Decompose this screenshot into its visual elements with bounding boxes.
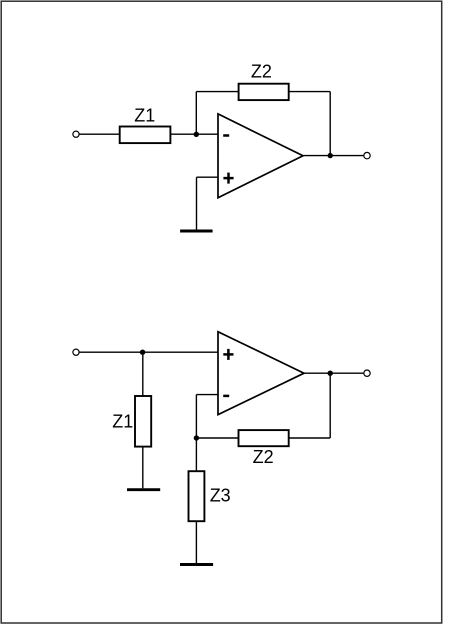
wire non-inverting input to ground <box>196 177 198 229</box>
svg-text:Z1: Z1 <box>134 106 155 126</box>
impedance Z1 (top circuit) <box>120 127 171 144</box>
op-amp U1 <box>218 114 303 198</box>
wire Z1 to ground <box>142 447 144 489</box>
wire input to non-inverting input <box>79 351 218 353</box>
wire input to Z1 <box>79 133 120 135</box>
op-amp U2 <box>218 332 304 415</box>
wire Z3 to ground <box>195 521 197 563</box>
wire output (bottom circuit) <box>304 372 363 374</box>
impedance Z3 <box>189 471 205 521</box>
output terminal (top circuit) <box>364 152 370 158</box>
node: output junction (top circuit) <box>328 153 333 158</box>
impedance Z2 (top circuit) <box>239 84 289 100</box>
svg-text:Z2: Z2 <box>251 62 272 82</box>
ground under Z3 <box>180 563 213 566</box>
wire Z2 to output branch <box>289 437 331 439</box>
ground under Z1 <box>127 488 160 491</box>
wire feedback right segment <box>289 91 331 93</box>
svg-text:Z2: Z2 <box>253 447 274 467</box>
non-inverting input marker (+) U1 <box>223 173 233 184</box>
ground (top circuit) <box>180 230 213 233</box>
wire junction to Z2 <box>196 437 238 439</box>
svg-text:Z1: Z1 <box>112 411 133 431</box>
wire feedback down to output <box>329 92 331 156</box>
node: inverting input junction <box>194 132 199 137</box>
wire junction up to feedback <box>195 92 197 135</box>
output terminal (bottom circuit) <box>364 370 370 376</box>
input terminal (top circuit) <box>73 131 79 137</box>
wire non-inverting input <box>197 176 219 178</box>
node: feedback junction <box>194 435 199 440</box>
inverting input marker (-) U1 <box>223 134 229 137</box>
non-inverting input marker (+) U2 <box>223 349 233 360</box>
node: input junction (bottom circuit) <box>140 350 145 355</box>
node: output junction (bottom circuit) <box>328 371 333 376</box>
wire feedback up to output <box>329 373 331 438</box>
wire output (top circuit) <box>303 155 363 157</box>
wire inverting input <box>196 394 218 396</box>
svg-text:Z3: Z3 <box>210 486 231 506</box>
input terminal (bottom circuit) <box>73 349 79 355</box>
wire feedback left segment <box>196 91 238 93</box>
wire junction down to Z3 <box>195 438 197 471</box>
wire Z1 to inverting input <box>170 133 218 135</box>
impedance Z2 (bottom circuit) <box>239 430 289 446</box>
inverting input marker (-) U2 <box>223 395 229 398</box>
wire junction down to Z1 <box>142 352 144 396</box>
wire inverting input down to feedback node <box>195 395 197 438</box>
impedance Z1 (bottom circuit) <box>135 396 151 447</box>
